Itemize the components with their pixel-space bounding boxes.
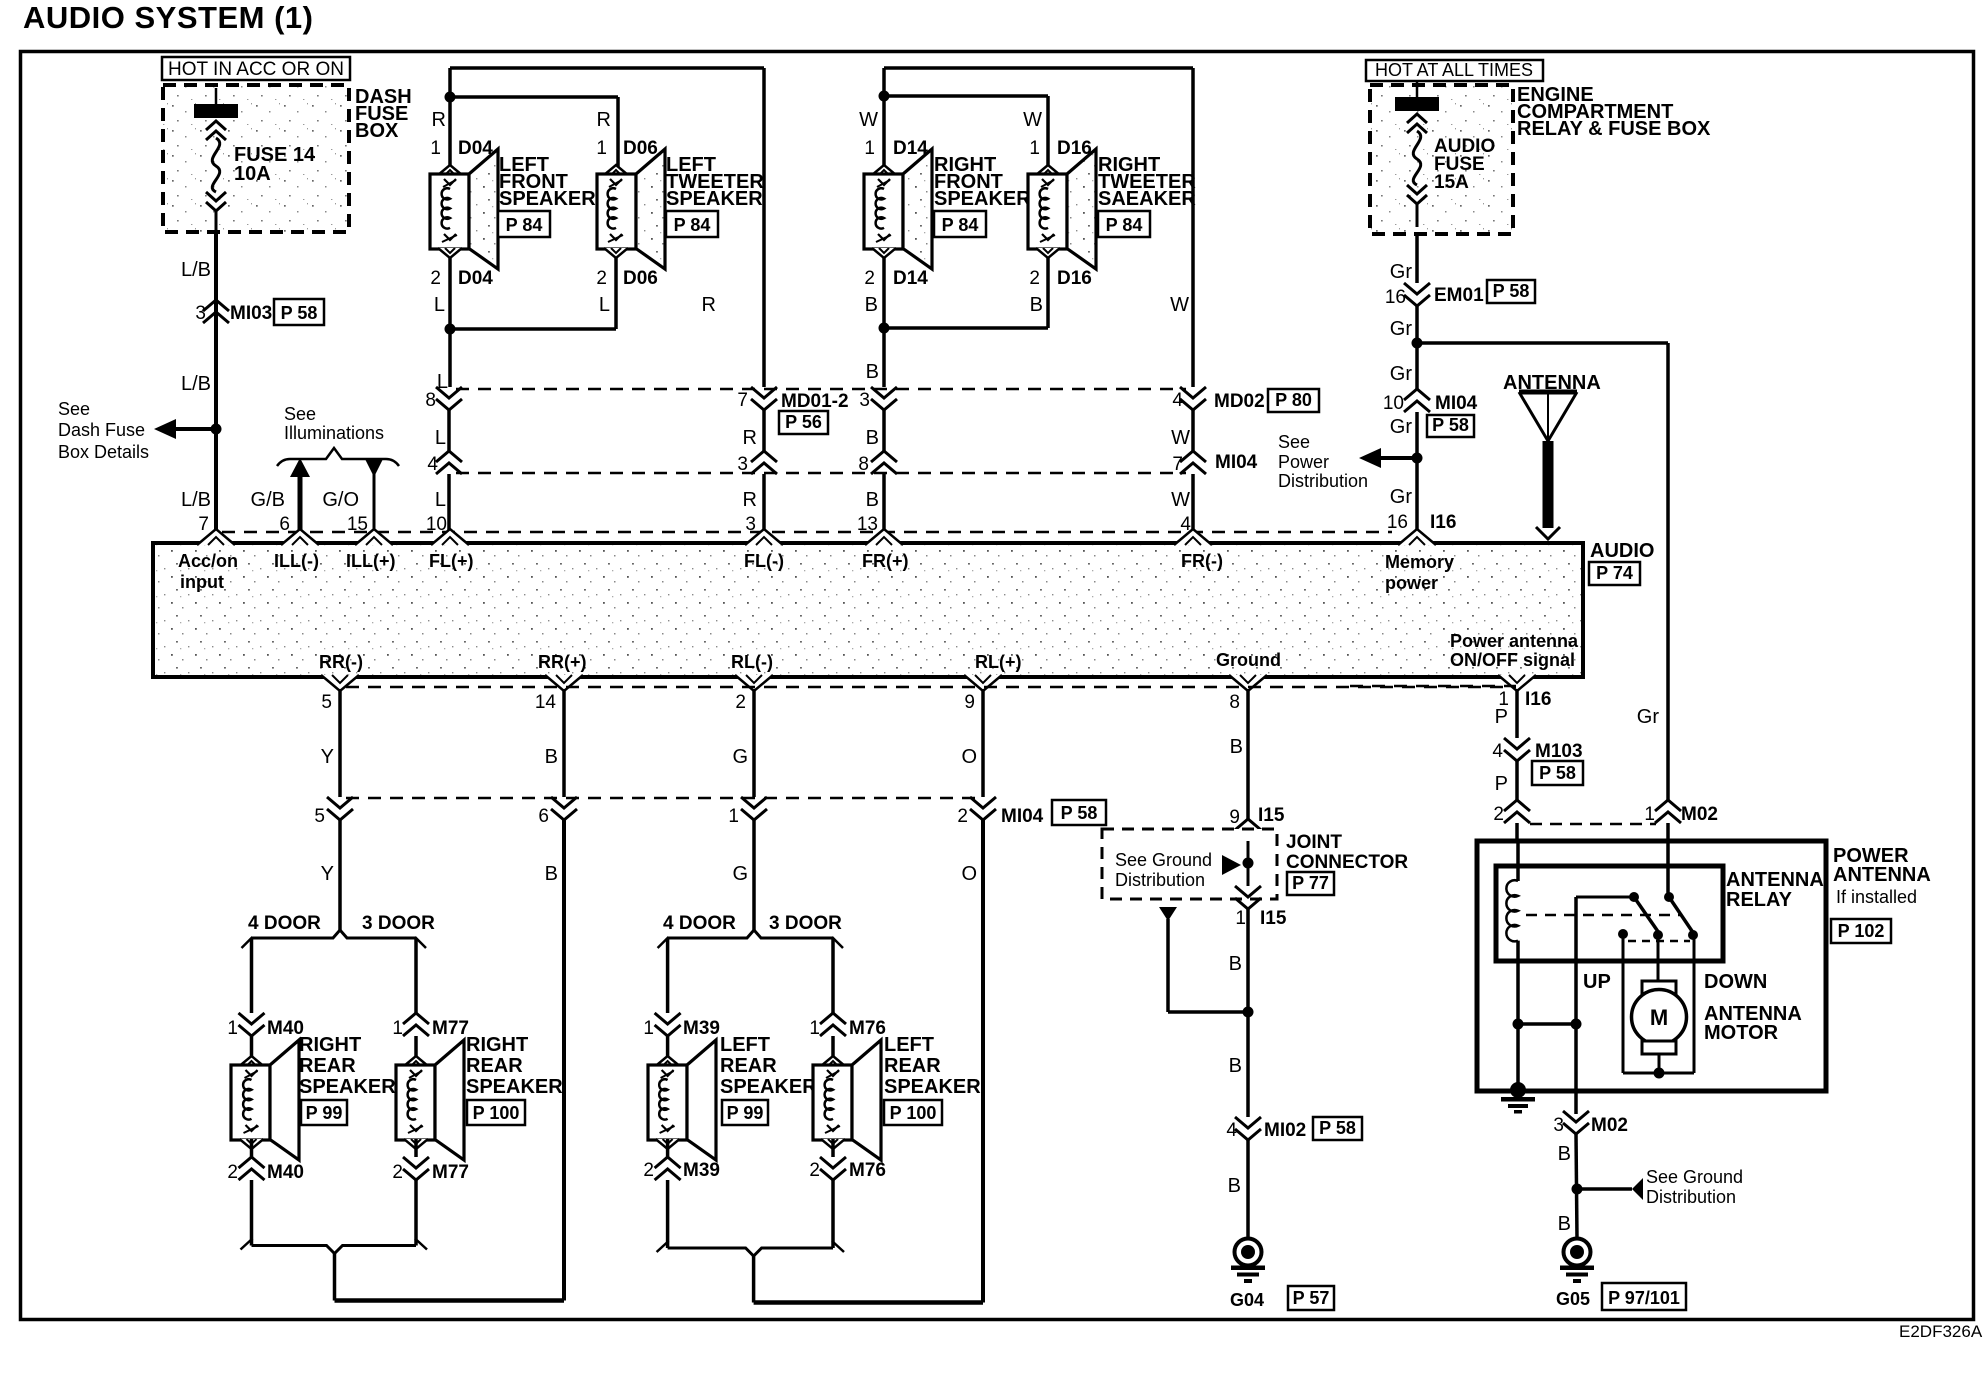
svg-text:G: G — [732, 746, 748, 768]
svg-text:M77: M77 — [432, 1018, 469, 1039]
svg-text:REAR: REAR — [720, 1055, 777, 1077]
svg-text:See: See — [284, 404, 316, 424]
svg-text:JOINT: JOINT — [1286, 832, 1342, 853]
svg-text:7: 7 — [1172, 454, 1183, 475]
svg-text:W: W — [859, 109, 878, 131]
svg-text:2: 2 — [643, 1160, 654, 1181]
svg-text:M77: M77 — [432, 1162, 469, 1183]
svg-text:5: 5 — [321, 692, 332, 713]
svg-text:D14: D14 — [893, 268, 928, 289]
svg-text:P: P — [1495, 706, 1508, 728]
svg-text:2: 2 — [735, 692, 746, 713]
svg-text:3: 3 — [859, 390, 870, 411]
svg-text:1: 1 — [430, 138, 441, 159]
svg-text:MI02: MI02 — [1264, 1120, 1306, 1141]
svg-text:AUDIO SYSTEM (1): AUDIO SYSTEM (1) — [23, 0, 313, 35]
svg-text:MI03: MI03 — [230, 303, 272, 324]
svg-text:4: 4 — [1492, 741, 1503, 762]
svg-text:Y: Y — [321, 746, 334, 768]
svg-text:3: 3 — [195, 303, 206, 324]
svg-text:W: W — [1170, 294, 1189, 316]
svg-text:RL(-): RL(-) — [731, 652, 773, 672]
svg-text:1: 1 — [809, 1018, 820, 1039]
svg-text:B: B — [865, 294, 878, 316]
svg-text:Box Details: Box Details — [58, 442, 149, 462]
svg-text:HOT AT ALL TIMES: HOT AT ALL TIMES — [1375, 60, 1533, 80]
svg-text:3: 3 — [745, 514, 756, 535]
svg-text:See: See — [1278, 432, 1310, 452]
svg-text:M76: M76 — [849, 1018, 886, 1039]
svg-text:SPEAKER: SPEAKER — [884, 1076, 981, 1098]
svg-text:O: O — [961, 746, 977, 768]
svg-text:L/B: L/B — [181, 489, 211, 511]
svg-text:3 DOOR: 3 DOOR — [769, 913, 842, 934]
svg-text:SPEAKER: SPEAKER — [666, 188, 763, 210]
svg-text:power: power — [1385, 573, 1438, 593]
svg-text:B: B — [545, 746, 558, 768]
svg-text:P 58: P 58 — [1539, 763, 1576, 783]
svg-text:M103: M103 — [1535, 741, 1583, 762]
svg-text:B: B — [866, 489, 879, 511]
svg-text:SPEAKER: SPEAKER — [499, 188, 596, 210]
svg-text:B: B — [1229, 1055, 1242, 1077]
svg-text:5: 5 — [314, 806, 325, 827]
svg-text:8: 8 — [425, 390, 436, 411]
svg-text:3 DOOR: 3 DOOR — [362, 913, 435, 934]
svg-text:2: 2 — [864, 268, 875, 289]
svg-text:1: 1 — [227, 1018, 238, 1039]
svg-text:P 56: P 56 — [785, 412, 822, 432]
svg-text:1: 1 — [1029, 138, 1040, 159]
svg-text:SPEAKER: SPEAKER — [934, 188, 1031, 210]
svg-text:P 58: P 58 — [1493, 281, 1530, 301]
svg-text:DOWN: DOWN — [1704, 971, 1767, 993]
svg-text:P 102: P 102 — [1838, 921, 1885, 941]
svg-text:D06: D06 — [623, 138, 658, 159]
svg-text:9: 9 — [964, 692, 975, 713]
svg-text:I15: I15 — [1258, 805, 1285, 826]
svg-text:RELAY: RELAY — [1726, 889, 1793, 911]
svg-text:Gr: Gr — [1390, 261, 1413, 283]
svg-text:L: L — [437, 371, 448, 393]
svg-text:If installed: If installed — [1836, 887, 1917, 907]
svg-text:REAR: REAR — [884, 1055, 941, 1077]
svg-text:W: W — [1171, 427, 1190, 449]
svg-text:4: 4 — [1226, 1120, 1237, 1141]
svg-text:RIGHT: RIGHT — [466, 1034, 528, 1056]
svg-text:14: 14 — [535, 692, 557, 713]
svg-text:D16: D16 — [1057, 268, 1092, 289]
svg-text:1: 1 — [1644, 804, 1655, 825]
svg-text:EM01: EM01 — [1434, 285, 1484, 306]
svg-text:15A: 15A — [1434, 172, 1469, 193]
svg-text:B: B — [1230, 736, 1243, 758]
svg-text:See Ground: See Ground — [1646, 1167, 1743, 1187]
svg-text:2: 2 — [430, 268, 441, 289]
svg-text:M39: M39 — [683, 1160, 720, 1181]
svg-text:G/O: G/O — [322, 489, 359, 511]
svg-text:R: R — [702, 294, 716, 316]
svg-text:P 100: P 100 — [890, 1103, 937, 1123]
svg-text:7: 7 — [737, 390, 748, 411]
svg-text:P 84: P 84 — [674, 215, 711, 235]
svg-text:10: 10 — [1383, 393, 1404, 414]
svg-text:See: See — [58, 399, 90, 419]
svg-text:P 58: P 58 — [1432, 415, 1469, 435]
svg-text:LEFT: LEFT — [884, 1034, 934, 1056]
svg-text:ANTENNA: ANTENNA — [1726, 869, 1824, 891]
svg-text:SPEAKER: SPEAKER — [720, 1076, 817, 1098]
svg-text:1: 1 — [643, 1018, 654, 1039]
svg-text:9: 9 — [1229, 807, 1240, 828]
svg-text:M02: M02 — [1681, 804, 1718, 825]
svg-text:P 84: P 84 — [1106, 215, 1143, 235]
svg-text:ANTENNA: ANTENNA — [1833, 864, 1931, 886]
svg-text:4: 4 — [1172, 390, 1183, 411]
svg-text:6: 6 — [538, 806, 549, 827]
svg-text:SPEAKER: SPEAKER — [299, 1076, 396, 1098]
svg-text:P 99: P 99 — [727, 1103, 764, 1123]
svg-text:P 97/101: P 97/101 — [1608, 1288, 1680, 1308]
svg-text:L: L — [434, 294, 445, 316]
svg-text:Gr: Gr — [1390, 363, 1413, 385]
svg-text:L: L — [435, 427, 446, 449]
svg-text:W: W — [1171, 489, 1190, 511]
svg-text:L: L — [599, 294, 610, 316]
svg-text:M76: M76 — [849, 1160, 886, 1181]
svg-text:R: R — [597, 109, 611, 131]
svg-text:M39: M39 — [683, 1018, 720, 1039]
svg-text:B: B — [1558, 1143, 1571, 1165]
svg-text:RR(-): RR(-) — [319, 652, 363, 672]
svg-text:MD02: MD02 — [1214, 391, 1265, 412]
svg-text:1: 1 — [1235, 908, 1246, 929]
svg-text:Power antenna: Power antenna — [1450, 631, 1579, 651]
svg-text:RL(+): RL(+) — [975, 652, 1022, 672]
svg-text:2: 2 — [596, 268, 607, 289]
svg-text:M40: M40 — [267, 1162, 304, 1183]
svg-text:Dash Fuse: Dash Fuse — [58, 420, 145, 440]
svg-text:Acc/on: Acc/on — [178, 551, 238, 571]
svg-text:3: 3 — [1553, 1115, 1564, 1136]
svg-text:G05: G05 — [1556, 1289, 1590, 1309]
svg-text:P 58: P 58 — [281, 303, 318, 323]
svg-text:MI04: MI04 — [1435, 393, 1478, 414]
svg-text:Gr: Gr — [1390, 318, 1413, 340]
svg-text:P 99: P 99 — [306, 1103, 343, 1123]
svg-text:R: R — [432, 109, 446, 131]
svg-text:2: 2 — [392, 1162, 403, 1183]
svg-text:L/B: L/B — [181, 259, 211, 281]
svg-text:See Ground: See Ground — [1115, 850, 1212, 870]
svg-text:4 DOOR: 4 DOOR — [663, 913, 736, 934]
svg-text:8: 8 — [858, 454, 869, 475]
svg-text:ILL(-): ILL(-) — [274, 551, 319, 571]
svg-text:B: B — [1558, 1213, 1571, 1235]
svg-text:ON/OFF signal: ON/OFF signal — [1450, 650, 1575, 670]
svg-text:W: W — [1023, 109, 1042, 131]
svg-text:R: R — [743, 489, 757, 511]
svg-text:G/B: G/B — [251, 489, 285, 511]
svg-text:FL(+): FL(+) — [429, 551, 474, 571]
svg-text:B: B — [1228, 1175, 1241, 1197]
svg-text:3: 3 — [737, 454, 748, 475]
svg-text:I15: I15 — [1260, 908, 1287, 929]
svg-text:G: G — [732, 863, 748, 885]
svg-text:O: O — [961, 863, 977, 885]
svg-text:1: 1 — [392, 1018, 403, 1039]
svg-text:B: B — [1229, 953, 1242, 975]
svg-text:Gr: Gr — [1637, 706, 1660, 728]
svg-text:8: 8 — [1229, 692, 1240, 713]
svg-text:10: 10 — [426, 514, 447, 535]
svg-text:SAEAKER: SAEAKER — [1098, 188, 1196, 210]
svg-text:M: M — [1650, 1005, 1668, 1030]
svg-text:D04: D04 — [458, 268, 493, 289]
svg-text:4: 4 — [427, 454, 438, 475]
svg-text:4 DOOR: 4 DOOR — [248, 913, 321, 934]
svg-text:RR(+): RR(+) — [538, 652, 587, 672]
svg-text:2: 2 — [227, 1162, 238, 1183]
svg-text:P 57: P 57 — [1293, 1288, 1330, 1308]
svg-text:B: B — [1030, 294, 1043, 316]
svg-text:P 58: P 58 — [1061, 803, 1098, 823]
svg-text:P: P — [1495, 773, 1508, 795]
svg-text:P 74: P 74 — [1596, 563, 1633, 583]
svg-text:Memory: Memory — [1385, 552, 1454, 572]
svg-text:1: 1 — [864, 138, 875, 159]
svg-text:Gr: Gr — [1390, 416, 1413, 438]
svg-text:M02: M02 — [1591, 1115, 1628, 1136]
svg-text:MOTOR: MOTOR — [1704, 1022, 1779, 1044]
svg-text:1: 1 — [728, 806, 739, 827]
svg-text:BOX: BOX — [355, 120, 399, 142]
svg-text:MI04: MI04 — [1001, 806, 1044, 827]
svg-text:Ground: Ground — [1216, 650, 1281, 670]
svg-text:RIGHT: RIGHT — [299, 1034, 361, 1056]
svg-text:B: B — [866, 427, 879, 449]
svg-text:AUDIO: AUDIO — [1590, 540, 1654, 562]
svg-text:P 80: P 80 — [1275, 390, 1312, 410]
svg-text:E2DF326A: E2DF326A — [1899, 1322, 1983, 1341]
svg-text:HOT IN ACC OR ON: HOT IN ACC OR ON — [168, 59, 344, 80]
svg-text:I16: I16 — [1525, 689, 1551, 710]
svg-text:P 77: P 77 — [1292, 873, 1329, 893]
svg-text:P 84: P 84 — [942, 215, 979, 235]
svg-text:MD01-2: MD01-2 — [781, 391, 849, 412]
svg-text:Gr: Gr — [1390, 486, 1413, 508]
svg-text:B: B — [866, 361, 879, 383]
svg-text:FR(+): FR(+) — [862, 551, 909, 571]
svg-text:ILL(+): ILL(+) — [346, 551, 396, 571]
svg-text:P 100: P 100 — [473, 1103, 520, 1123]
svg-text:REAR: REAR — [299, 1055, 356, 1077]
svg-text:7: 7 — [198, 514, 209, 535]
svg-text:Distribution: Distribution — [1278, 471, 1368, 491]
svg-text:1: 1 — [596, 138, 607, 159]
svg-text:13: 13 — [857, 514, 878, 535]
svg-text:G04: G04 — [1230, 1290, 1264, 1310]
svg-text:16: 16 — [1387, 512, 1408, 533]
svg-text:CONNECTOR: CONNECTOR — [1286, 852, 1408, 873]
svg-text:UP: UP — [1583, 971, 1611, 993]
svg-text:Y: Y — [321, 863, 334, 885]
svg-text:Distribution: Distribution — [1646, 1187, 1736, 1207]
svg-text:LEFT: LEFT — [720, 1034, 770, 1056]
svg-text:P 84: P 84 — [506, 215, 543, 235]
svg-text:input: input — [180, 572, 224, 592]
svg-text:16: 16 — [1385, 287, 1406, 308]
svg-text:2: 2 — [809, 1160, 820, 1181]
svg-text:R: R — [743, 427, 757, 449]
svg-text:L: L — [435, 489, 446, 511]
svg-text:I16: I16 — [1430, 512, 1456, 533]
svg-text:B: B — [545, 863, 558, 885]
svg-text:MI04: MI04 — [1215, 452, 1258, 473]
svg-text:Power: Power — [1278, 452, 1329, 472]
svg-text:RELAY & FUSE BOX: RELAY & FUSE BOX — [1517, 118, 1711, 140]
svg-text:FR(-): FR(-) — [1181, 551, 1223, 571]
svg-text:2: 2 — [1029, 268, 1040, 289]
svg-text:Illuminations: Illuminations — [284, 423, 384, 443]
svg-text:Distribution: Distribution — [1115, 870, 1205, 890]
svg-text:REAR: REAR — [466, 1055, 523, 1077]
svg-text:L/B: L/B — [181, 373, 211, 395]
svg-text:2: 2 — [957, 806, 968, 827]
svg-text:SPEAKER: SPEAKER — [466, 1076, 563, 1098]
svg-text:D06: D06 — [623, 268, 658, 289]
svg-text:FL(-): FL(-) — [744, 551, 784, 571]
svg-text:P 58: P 58 — [1319, 1118, 1356, 1138]
svg-text:10A: 10A — [234, 163, 271, 185]
svg-text:2: 2 — [1493, 804, 1504, 825]
